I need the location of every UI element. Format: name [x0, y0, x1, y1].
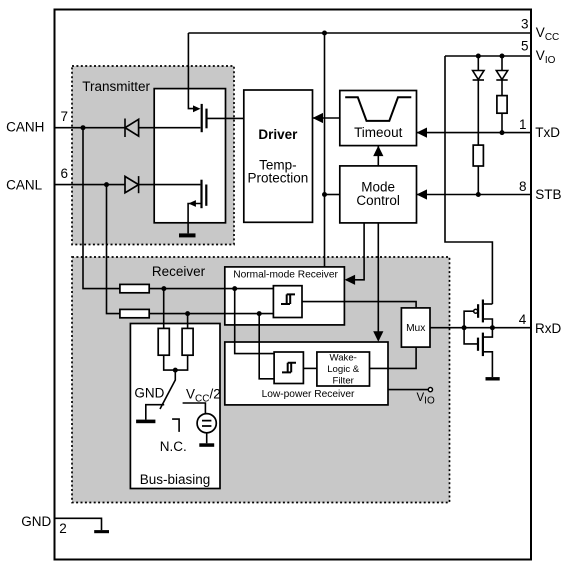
svg-text:Protection: Protection: [248, 171, 309, 186]
diode D1 CANH (cathode left): [125, 119, 200, 138]
pin 6 CANL lead: [55, 184, 126, 186]
svg-text:Wake-: Wake-: [330, 353, 357, 364]
svg-text:Bus-biasing: Bus-biasing: [140, 472, 211, 487]
transistor Q1 high-side (CANH): [193, 104, 244, 132]
transistor Q2 low-side (CANL): [188, 180, 206, 234]
wire mode control to timeout arrow up: [377, 146, 379, 166]
wire VIO terminal of low-power rx: [388, 389, 428, 391]
ground bus-bias gnd contact: [136, 420, 155, 424]
mux box: [401, 308, 430, 347]
driver block U1: [244, 90, 313, 222]
switch contact N.C.: [172, 419, 179, 432]
wire mode control to normal rx (arrow): [346, 223, 364, 280]
diode D4 on VIO to TxD chain: [496, 54, 507, 96]
wire CANL down to receiver: [107, 185, 120, 314]
svg-text:2: 2: [59, 521, 67, 536]
transmitter mosfet container box: [154, 89, 225, 223]
node rxd gate junction: [462, 325, 467, 330]
node bias switch pivot: [173, 368, 178, 373]
bus-biasing box: [130, 324, 220, 489]
pin 8 STB lead with arrow into mode control: [417, 194, 532, 196]
resistor R2 (STB pull): [473, 145, 483, 166]
mode control block: [340, 166, 417, 223]
transistor Q4 nmos of rxd buffer: [464, 328, 492, 377]
resistor R5: [158, 328, 169, 355]
svg-text:Driver: Driver: [258, 127, 298, 142]
svg-text:CANH: CANH: [6, 120, 44, 135]
wire normal rx output to mux: [302, 302, 416, 308]
node TxD pull-up junction: [500, 130, 505, 135]
svg-text:4: 4: [519, 312, 527, 327]
wire to mode control: [325, 194, 340, 196]
wire CANH down to receiver: [83, 128, 120, 289]
svg-text:TxD: TxD: [535, 125, 560, 140]
timeout block: [340, 91, 417, 146]
node row1 bias tap: [161, 286, 166, 291]
wire VCC drop to transmitter: [188, 33, 193, 109]
ground transmitter: [179, 233, 196, 237]
node STB pull-up junction: [476, 192, 481, 197]
svg-text:Mux: Mux: [406, 323, 425, 334]
ground vcc2 source: [199, 443, 214, 447]
wire resistor bottoms join: [164, 355, 188, 370]
svg-text:7: 7: [61, 109, 69, 124]
svg-text:6: 6: [61, 166, 69, 181]
switch lever: [160, 370, 175, 409]
receiver dashed block: [72, 257, 450, 503]
svg-text:5: 5: [521, 39, 529, 54]
svg-text:N.C.: N.C.: [160, 439, 187, 454]
wire VIO rail: [445, 55, 531, 57]
svg-text:VIO: VIO: [536, 48, 556, 66]
svg-text:Normal-mode Receiver: Normal-mode Receiver: [233, 269, 338, 280]
svg-text:8: 8: [519, 179, 527, 194]
wire hysteresis to wake logic: [303, 367, 317, 369]
ground rxd buffer: [486, 377, 500, 380]
switch contact GND: [146, 405, 164, 420]
node rxd drain junction: [490, 325, 495, 330]
svg-text:3: 3: [521, 16, 529, 31]
rxd output line: [430, 327, 531, 329]
svg-text:STB: STB: [535, 187, 561, 202]
transistor Q3 pmos of rxd buffer: [464, 300, 492, 328]
svg-text:CANL: CANL: [6, 178, 43, 193]
diode D2 CANL (cathode right): [125, 176, 200, 193]
comparator hysteresis box (low-power): [274, 352, 303, 384]
wire VCC rail: [188, 32, 531, 34]
svg-text:Filter: Filter: [333, 375, 355, 386]
svg-text:Low-power Receiver: Low-power Receiver: [262, 389, 355, 400]
svg-text:GND: GND: [21, 514, 51, 529]
switch contact VCC/2: [183, 403, 206, 414]
svg-text:RxD: RxD: [535, 321, 561, 336]
comparator hysteresis box (normal): [273, 286, 302, 318]
low-power receiver box: [225, 342, 388, 405]
wire R6 tap: [187, 314, 189, 329]
pin 1 TxD lead with arrow into timeout: [417, 132, 532, 134]
node row2 low-power tap: [257, 311, 262, 316]
resistor R4 bus CANL: [120, 309, 149, 317]
wire wake logic to mux: [370, 347, 417, 368]
node mode-control tap: [322, 192, 327, 197]
hysteresis symbol (normal-mode comparator): [281, 294, 295, 304]
source VCC/2 (circle =): [197, 414, 216, 433]
diode D3 on VIO to STB chain: [473, 54, 484, 146]
wire VCC vertical branch to receiver: [324, 33, 326, 267]
svg-text:1: 1: [519, 117, 527, 132]
svg-text:Logic &: Logic &: [327, 364, 360, 375]
node VCC branch: [322, 31, 327, 36]
node row1 low-power tap: [232, 286, 237, 291]
wire VIO drop to rxd stage: [445, 56, 492, 304]
wire bus row2: [149, 313, 273, 315]
svg-text:Transmitter: Transmitter: [82, 79, 150, 94]
terminal circle VIO: [428, 388, 432, 392]
node row2 bias tap: [185, 311, 190, 316]
svg-text:Timeout: Timeout: [354, 125, 403, 140]
wire bus taps into low-power rx: [235, 289, 274, 354]
svg-text:Receiver: Receiver: [152, 264, 206, 279]
svg-text:Control: Control: [356, 193, 400, 208]
wire timeout to driver with arrow: [313, 117, 340, 119]
node CANH: [81, 125, 86, 130]
resistor R6: [182, 328, 193, 355]
wake-logic and filter box: [317, 352, 370, 386]
pin 2 GND lead: [55, 518, 102, 530]
wire mode control to low-power rx (arrow): [377, 223, 379, 340]
wire R5 tap: [163, 289, 165, 329]
pin 7 CANH lead: [55, 127, 126, 129]
transmitter dashed block: [72, 66, 234, 245]
svg-text:VCC: VCC: [536, 25, 559, 43]
normal-mode receiver box: [225, 267, 345, 325]
wire bus row1: [149, 288, 273, 290]
ground pin2: [94, 530, 109, 533]
svg-text:GND: GND: [134, 386, 164, 401]
resistor R1 (TxD pull): [497, 96, 507, 114]
node CANL: [104, 182, 109, 187]
hysteresis symbol (low-power comparator): [282, 363, 296, 373]
resistor R3 bus CANH: [120, 284, 149, 292]
